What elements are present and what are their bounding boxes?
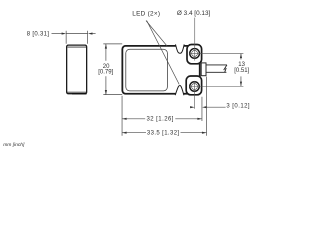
svg-text:LED (2×): LED (2×) xyxy=(132,10,160,17)
bottom mounting boss xyxy=(186,76,201,95)
arrow down 20-dim xyxy=(105,90,107,95)
arrow right 3-dim xyxy=(202,106,206,108)
LED leader line 2 xyxy=(147,21,180,85)
side view housing xyxy=(67,45,87,94)
arrow left 3-dim xyxy=(190,106,195,108)
cable top line xyxy=(207,64,227,66)
svg-text:[0.79]: [0.79] xyxy=(98,70,113,76)
cable bottom line xyxy=(207,71,227,73)
active face inner square xyxy=(126,49,168,91)
dim line 33.5 segments xyxy=(122,132,206,134)
extension line left bottom dims xyxy=(121,96,123,136)
top mounting boss xyxy=(187,45,202,64)
arrow up 20-dim xyxy=(105,44,107,49)
top hole inner circle xyxy=(192,50,198,56)
arrow up 13-dim xyxy=(240,54,242,59)
svg-text:mm [inch]: mm [inch] xyxy=(3,142,25,148)
bottom hole outer ring xyxy=(190,82,200,92)
extension line right 33.5-dim xyxy=(206,77,208,136)
leader diameter 3.4 vertical xyxy=(194,18,196,61)
extension line left 8-dim xyxy=(65,31,67,44)
dim line 8 tail xyxy=(93,33,96,35)
dim line 3 leader xyxy=(207,106,226,108)
arrow left 32-dim xyxy=(122,118,127,120)
svg-text:3 [0.12]: 3 [0.12] xyxy=(226,104,250,110)
dim line 8 middle xyxy=(66,33,87,35)
extension line top 20-dim xyxy=(103,43,122,45)
crosshair / ext line top hole horizontal xyxy=(189,53,243,55)
wire dim line 8 left segment xyxy=(52,33,63,35)
extension line bottom 20-dim xyxy=(103,94,122,96)
svg-text:8 [0.31]: 8 [0.31] xyxy=(27,32,50,38)
arrow right of 8-dim xyxy=(88,33,93,35)
svg-text:[0.51]: [0.51] xyxy=(234,68,249,74)
cable gland xyxy=(201,63,206,76)
arrow left 33.5-dim xyxy=(122,132,127,134)
side view bottom inner line xyxy=(67,91,86,93)
top LED notch xyxy=(176,44,185,53)
arrow right 32-dim xyxy=(197,118,202,120)
sensor body front view xyxy=(122,46,199,94)
top hole outer ring xyxy=(190,49,200,59)
extension line right 8-dim xyxy=(87,31,89,44)
dim line 13 bottom segment xyxy=(240,76,242,86)
side view bottom emphasis line xyxy=(72,93,87,95)
arrow left of 8-dim xyxy=(62,33,67,35)
dim line 32 segments xyxy=(122,118,202,120)
arrow down 13-dim xyxy=(240,82,242,87)
svg-text:33.5 [1.32]: 33.5 [1.32] xyxy=(147,131,180,137)
bottom hole inner circle xyxy=(192,84,198,90)
arrow right 33.5-dim xyxy=(202,132,207,134)
LED leader line 1 xyxy=(146,21,167,47)
svg-text:Ø 3.4 [0.13]: Ø 3.4 [0.13] xyxy=(177,10,211,17)
extension line right 32-dim xyxy=(201,97,203,121)
cable break end xyxy=(224,65,227,72)
svg-text:32 [1.26]: 32 [1.26] xyxy=(146,116,173,122)
dim line 20 vertical segments xyxy=(105,44,107,95)
crosshair / ext line bottom hole horizontal xyxy=(189,85,243,87)
dim line 13 top segment xyxy=(240,54,242,60)
side view top inner line xyxy=(68,46,87,48)
bottom LED notch xyxy=(175,86,184,96)
crosshair / ext line bottom hole vertical xyxy=(194,81,196,109)
